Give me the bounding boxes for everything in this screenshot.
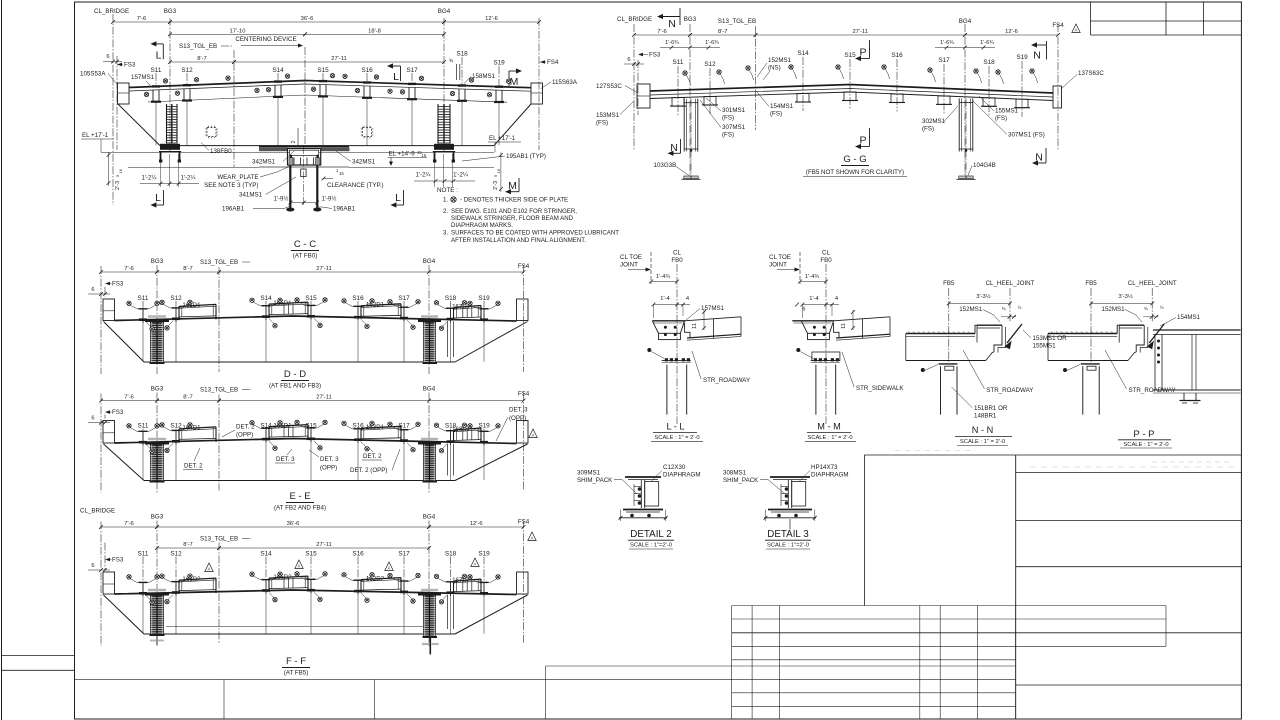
svg-text:FS3: FS3 [112, 281, 124, 288]
svg-text:307MS1: 307MS1 [722, 124, 746, 131]
svg-text:EL +14'-9: EL +14'-9 [389, 151, 416, 158]
svg-text:¾: ¾ [449, 59, 454, 65]
svg-text:S11: S11 [673, 59, 684, 66]
svg-text:8'-7: 8'-7 [183, 266, 193, 272]
svg-text:S15: S15 [305, 295, 317, 302]
svg-text:S13_TGL_EB: S13_TGL_EB [179, 43, 217, 50]
svg-text:16: 16 [496, 168, 501, 173]
svg-text:7'-6: 7'-6 [137, 16, 147, 22]
svg-text:A: A [532, 433, 535, 438]
svg-text:S13_TGL_EB: S13_TGL_EB [200, 387, 238, 394]
svg-text:1'-9½: 1'-9½ [274, 196, 289, 203]
svg-text:S17: S17 [938, 57, 950, 64]
svg-text:11: 11 [841, 323, 847, 329]
svg-text:S14: S14 [272, 67, 284, 74]
svg-text:1'-4: 1'-4 [660, 296, 670, 302]
svg-text:BG4: BG4 [423, 386, 436, 393]
svg-text:BG3: BG3 [151, 514, 164, 521]
svg-text:7'-6: 7'-6 [124, 266, 134, 272]
svg-text:309MS1: 309MS1 [577, 470, 601, 477]
svg-text:BG3: BG3 [684, 16, 697, 23]
svg-text:L: L [156, 50, 162, 62]
svg-text:S18: S18 [456, 51, 468, 58]
svg-text:BG4: BG4 [423, 258, 436, 265]
svg-text:S19: S19 [478, 295, 490, 302]
svg-text:BG4: BG4 [438, 8, 451, 15]
svg-text:FS3: FS3 [649, 52, 661, 59]
svg-text:1'-2¼: 1'-2¼ [453, 173, 469, 179]
svg-text:27'-11: 27'-11 [316, 266, 332, 272]
svg-text:7'-6: 7'-6 [124, 521, 134, 527]
svg-text:2: 2 [291, 140, 297, 143]
svg-text:DETAIL 3: DETAIL 3 [767, 529, 809, 540]
svg-text:FS3: FS3 [112, 409, 124, 416]
svg-text:(FS): (FS) [995, 115, 1007, 122]
svg-text:342MS1: 342MS1 [252, 159, 276, 166]
svg-text:158MS1: 158MS1 [472, 73, 496, 80]
DETAIL 3 sketch [770, 476, 810, 478]
title block big box [863, 455, 865, 606]
svg-text:3'-3½: 3'-3½ [1118, 293, 1132, 300]
svg-text:S12: S12 [170, 551, 182, 558]
DETAIL 2 sketch [625, 476, 661, 478]
svg-text:(AT FB2 AND FB4): (AT FB2 AND FB4) [274, 505, 326, 512]
svg-text:12'-6: 12'-6 [485, 16, 498, 22]
svg-text:S11: S11 [151, 67, 162, 74]
svg-text:CL_BRIDGE: CL_BRIDGE [80, 508, 115, 515]
svg-text:196AB1: 196AB1 [222, 206, 245, 213]
C-C deck and body [129, 81, 531, 88]
svg-text:FS4: FS4 [518, 263, 530, 270]
svg-text:S16: S16 [352, 295, 364, 302]
svg-text:137S63C: 137S63C [1078, 70, 1104, 77]
svg-text:CL_BRIDGE: CL_BRIDGE [94, 8, 129, 15]
svg-text:307MS1 (FS): 307MS1 (FS) [1008, 132, 1045, 139]
svg-text:2'-3: 2'-3 [115, 181, 121, 190]
svg-text:8'-7: 8'-7 [183, 542, 193, 548]
svg-text:FB5: FB5 [1085, 280, 1097, 287]
header table top right [1090, 2, 1092, 35]
svg-text:11: 11 [692, 323, 698, 329]
svg-text:L: L [395, 192, 401, 204]
svg-text:A: A [474, 562, 477, 567]
svg-text:¾: ¾ [1144, 306, 1148, 311]
svg-text:CL_HEEL_JOINT: CL_HEEL_JOINT [1128, 280, 1177, 287]
svg-text:L: L [155, 192, 161, 204]
svg-text:FS3: FS3 [124, 62, 136, 69]
svg-text:CL_BRIDGE: CL_BRIDGE [617, 16, 652, 23]
svg-text:(OPP): (OPP) [320, 465, 337, 472]
G-G grid lines [633, 24, 635, 150]
svg-text:S16: S16 [361, 67, 373, 74]
svg-text:(FS): (FS) [722, 115, 734, 122]
svg-text:FS4: FS4 [518, 391, 530, 398]
svg-text:S16: S16 [891, 52, 903, 59]
svg-text:STR_ROADWAY: STR_ROADWAY [703, 377, 750, 384]
svg-text:6: 6 [91, 563, 94, 569]
svg-text:N: N [670, 142, 678, 154]
svg-text:BG3: BG3 [151, 258, 164, 265]
svg-text:196AB1: 196AB1 [333, 206, 356, 213]
section F-F title [205, 563, 213, 572]
svg-text:S18: S18 [983, 59, 995, 66]
svg-text:(FB5 NOT SHOWN FOR CLARITY): (FB5 NOT SHOWN FOR CLARITY) [806, 169, 904, 176]
svg-text:M: M [508, 180, 517, 192]
svg-text:FS4: FS4 [518, 519, 530, 526]
svg-text:1'-2¼: 1'-2¼ [181, 176, 197, 182]
svg-text:155MS1: 155MS1 [995, 108, 1019, 115]
svg-text:CL TOE: CL TOE [620, 254, 642, 261]
left binding tab [2, 655, 75, 657]
svg-text:6: 6 [91, 416, 94, 422]
section E-E grid lines [100, 394, 102, 493]
svg-text:SEE DWG. E101 AND E102 FOR STR: SEE DWG. E101 AND E102 FOR STRINGER, [451, 208, 577, 215]
svg-text:DET. 3: DET. 3 [509, 407, 528, 414]
svg-text:3'-3½: 3'-3½ [976, 293, 990, 300]
svg-text:17'-10: 17'-10 [230, 28, 246, 34]
svg-text:SURFACES TO BE COATED WITH APP: SURFACES TO BE COATED WITH APPROVED LUBR… [451, 230, 619, 237]
section F-F grid lines [100, 522, 102, 647]
svg-text:154MS1: 154MS1 [770, 103, 794, 110]
svg-text:JOINT: JOINT [620, 262, 638, 269]
svg-text:S13_TGL_EB: S13_TGL_EB [718, 18, 756, 25]
svg-text:CL TOE: CL TOE [769, 254, 791, 261]
svg-text:7'-6: 7'-6 [124, 395, 134, 401]
G-G deck band and stringers [650, 85, 1053, 94]
C-C grid lines [112, 14, 114, 205]
svg-text:148BR1: 148BR1 [974, 413, 997, 420]
svg-text:7'-6: 7'-6 [657, 29, 667, 35]
svg-text:E - E: E - E [289, 491, 310, 502]
svg-text:1'-2¼: 1'-2¼ [142, 176, 158, 182]
paper left edge [1, 0, 3, 720]
svg-text:2'-3: 2'-3 [493, 181, 499, 190]
svg-text:SCALE : 1"=2'-0: SCALE : 1"=2'-0 [767, 543, 809, 549]
C-C weep hole symbols [207, 128, 216, 137]
svg-text:1'-4: 1'-4 [809, 296, 819, 302]
svg-text:(AT FB5): (AT FB5) [284, 670, 309, 677]
svg-text:S11: S11 [138, 295, 149, 302]
svg-text:163D1: 163D1 [366, 424, 385, 431]
svg-text:301MS1: 301MS1 [722, 107, 746, 114]
svg-text:DIAPHRAGM: DIAPHRAGM [663, 472, 700, 479]
svg-text:SCALE : 1" = 2'-0: SCALE : 1" = 2'-0 [654, 435, 699, 441]
svg-text:(FS): (FS) [722, 132, 734, 139]
section D-D body [115, 316, 517, 321]
svg-text:16: 16 [118, 168, 123, 173]
svg-text:162D2: 162D2 [366, 575, 385, 582]
svg-text:S18: S18 [445, 295, 457, 302]
svg-text:FS3: FS3 [112, 557, 124, 564]
svg-text:A: A [531, 536, 534, 541]
svg-text:3.: 3. [443, 230, 448, 237]
svg-text:FB0: FB0 [820, 257, 832, 264]
svg-text:195AB1 (TYP): 195AB1 (TYP) [506, 153, 546, 160]
svg-text:(FS): (FS) [596, 120, 608, 127]
svg-text:P - P: P - P [1133, 429, 1154, 440]
svg-text:1'-6¾: 1'-6¾ [980, 40, 994, 46]
svg-text:DET. 2 (OPP): DET. 2 (OPP) [350, 467, 387, 474]
svg-text:DET. 3: DET. 3 [276, 456, 295, 463]
svg-text:138FB0: 138FB0 [210, 148, 232, 155]
svg-text:S17: S17 [398, 551, 410, 558]
svg-text:CLEARANCE (TYP.): CLEARANCE (TYP.) [327, 182, 384, 189]
svg-text:¾: ¾ [1002, 306, 1006, 311]
svg-text:FB0: FB0 [671, 257, 683, 264]
svg-text:STR_SIDEWALK: STR_SIDEWALK [856, 385, 904, 392]
svg-text:S17: S17 [406, 67, 418, 74]
svg-text:27'-11: 27'-11 [316, 542, 332, 548]
svg-text:(OPP): (OPP) [509, 415, 526, 422]
svg-text:M - M: M - M [817, 422, 840, 432]
svg-text:153MS1: 153MS1 [596, 112, 620, 119]
svg-text:C12X30: C12X30 [663, 464, 686, 471]
C-C section cut markers [150, 41, 156, 46]
svg-text:341MS1: 341MS1 [239, 192, 263, 199]
svg-text:- DENOTES THICKER SIDE OF PLAT: - DENOTES THICKER SIDE OF PLATE [460, 197, 568, 204]
svg-text:N: N [1033, 50, 1041, 62]
C-C centering device assembly [259, 145, 349, 147]
svg-text:S14: S14 [260, 295, 272, 302]
svg-text:1'-9½: 1'-9½ [322, 196, 337, 203]
svg-text:FB5: FB5 [943, 280, 955, 287]
svg-text:8'-7: 8'-7 [718, 29, 728, 35]
svg-text:EL +17'-1: EL +17'-1 [82, 132, 109, 139]
svg-text:DET. 2: DET. 2 [184, 463, 203, 470]
svg-text:S16: S16 [352, 551, 364, 558]
svg-text:SCALE : 1" = 2'-0: SCALE : 1" = 2'-0 [807, 435, 852, 441]
svg-text:1'-6¾: 1'-6¾ [705, 40, 719, 46]
section E-E body [115, 439, 517, 444]
svg-text:P: P [859, 135, 866, 147]
svg-text:A: A [208, 567, 211, 572]
G-G section cut markers [657, 14, 663, 19]
svg-text:A: A [388, 566, 391, 571]
svg-text:SIDEWALK STRINGER, FLOOR BEAM: SIDEWALK STRINGER, FLOOR BEAM AND [451, 215, 574, 222]
svg-text:N - N: N - N [972, 425, 993, 435]
svg-text:SHIM_PACK: SHIM_PACK [723, 477, 759, 484]
svg-text:S19: S19 [1016, 54, 1028, 61]
G-G columns at BG3 and BG4 [683, 99, 685, 152]
svg-text:DET. 3: DET. 3 [320, 456, 339, 463]
svg-text:G - G: G - G [843, 154, 866, 165]
svg-text:S14: S14 [260, 551, 272, 558]
svg-text:(OPP): (OPP) [236, 432, 253, 439]
svg-text:127S53C: 127S53C [596, 83, 622, 90]
svg-text:S18: S18 [445, 551, 457, 558]
svg-text:115S63A: 115S63A [552, 79, 578, 86]
svg-text:308MS1: 308MS1 [723, 470, 747, 477]
svg-text:SCALE : 1" = 2'-0: SCALE : 1" = 2'-0 [960, 439, 1005, 445]
svg-text:1'-2¼: 1'-2¼ [416, 173, 432, 179]
svg-text:(FS): (FS) [922, 126, 934, 133]
svg-text:12'-6: 12'-6 [470, 521, 483, 527]
svg-text:16: 16 [339, 171, 344, 176]
svg-text:N: N [1035, 152, 1043, 164]
svg-text:27'-11: 27'-11 [331, 56, 347, 62]
svg-text:8'-7: 8'-7 [197, 56, 207, 62]
svg-text:A: A [1075, 28, 1078, 33]
svg-text:36'-6: 36'-6 [301, 16, 314, 22]
svg-text:C - C: C - C [294, 239, 316, 250]
svg-text:S13_TGL_EB: S13_TGL_EB [200, 536, 238, 543]
svg-text:BG4: BG4 [959, 18, 972, 25]
svg-text:18'-8: 18'-8 [368, 28, 381, 34]
svg-text:BG4: BG4 [423, 514, 436, 521]
svg-text:SCALE : 1"=2'-0: SCALE : 1"=2'-0 [630, 543, 672, 549]
svg-text:S15: S15 [317, 67, 329, 74]
svg-text:S12: S12 [181, 67, 193, 74]
svg-text:2.: 2. [443, 208, 448, 215]
svg-text:103G3B: 103G3B [654, 162, 677, 169]
svg-text:1.: 1. [443, 197, 448, 204]
svg-text:BG3: BG3 [151, 386, 164, 393]
svg-text:A: A [298, 564, 301, 569]
svg-text:6: 6 [803, 307, 806, 313]
svg-text:6: 6 [627, 57, 630, 63]
section F-F body [115, 590, 517, 595]
svg-text:SHIM_PACK: SHIM_PACK [577, 477, 613, 484]
svg-text:DIAPHRAGM MARKS.: DIAPHRAGM MARKS. [451, 222, 513, 229]
svg-text:(NS): (NS) [768, 65, 781, 72]
svg-text:S17: S17 [398, 295, 410, 302]
svg-text:EL +17'-1: EL +17'-1 [489, 135, 516, 142]
svg-text:CL: CL [822, 250, 830, 257]
svg-text:S12: S12 [170, 295, 182, 302]
svg-text:FS4: FS4 [547, 59, 559, 66]
svg-text:S12: S12 [704, 61, 716, 68]
svg-text:151BR1 OR: 151BR1 OR [974, 405, 1008, 412]
svg-text:(AT FB0): (AT FB0) [293, 253, 318, 260]
svg-text:1'-4¾: 1'-4¾ [656, 274, 670, 280]
title block greeked text [1030, 466, 1235, 468]
svg-text:S15: S15 [305, 551, 317, 558]
svg-text:DET. 2: DET. 2 [236, 424, 255, 431]
svg-text:FS4: FS4 [1052, 22, 1064, 29]
svg-text:STR_ROADWAY: STR_ROADWAY [986, 387, 1033, 394]
svg-text:½: ½ [1160, 304, 1164, 310]
svg-text:S14: S14 [797, 50, 809, 57]
svg-text:HP14X73: HP14X73 [811, 464, 838, 471]
C-C pier bearings at BG3 BG4 [160, 144, 180, 150]
svg-text:27'-11: 27'-11 [316, 395, 332, 401]
svg-text:AFTER INSTALLATION AND FINAL A: AFTER INSTALLATION AND FINAL ALIGNMENT. [451, 237, 586, 244]
svg-text:152MS1: 152MS1 [1102, 306, 1126, 313]
title block right rows [1015, 455, 1017, 719]
svg-text:F - F: F - F [286, 656, 306, 667]
svg-text:154MS1: 154MS1 [1177, 314, 1201, 321]
svg-text:SCALE : 1" = 2'-0: SCALE : 1" = 2'-0 [1123, 442, 1168, 448]
svg-text:S15: S15 [844, 52, 856, 59]
title block bottom table [732, 605, 1166, 607]
svg-text:27'-11: 27'-11 [852, 29, 868, 35]
svg-text:D - D: D - D [284, 369, 306, 380]
svg-text:1'-6¾: 1'-6¾ [940, 40, 954, 46]
svg-text:CL: CL [673, 250, 681, 257]
svg-text:DET. 2: DET. 2 [363, 453, 382, 460]
svg-text:DIAPHRAGM: DIAPHRAGM [811, 472, 848, 479]
svg-text:S13_TGL_EB: S13_TGL_EB [200, 259, 238, 266]
svg-text:104G4B: 104G4B [973, 162, 996, 169]
svg-text:152MS1: 152MS1 [959, 306, 983, 313]
svg-text:NOTE :: NOTE : [437, 187, 458, 194]
svg-text:(FS): (FS) [770, 111, 782, 118]
svg-text:1'-6¾: 1'-6¾ [665, 40, 679, 46]
svg-text:CL_HEEL_JOINT: CL_HEEL_JOINT [986, 280, 1035, 287]
svg-text:302MS1: 302MS1 [922, 118, 946, 125]
svg-text:DETAIL 2: DETAIL 2 [630, 529, 671, 540]
svg-text:(AT FB1 AND FB3): (AT FB1 AND FB3) [269, 383, 321, 390]
svg-text:342MS1: 342MS1 [352, 159, 376, 166]
svg-text:105S53A: 105S53A [80, 71, 106, 78]
svg-text:S19: S19 [493, 60, 505, 67]
svg-text:S19: S19 [478, 551, 490, 558]
section D-D grid lines [100, 266, 102, 374]
svg-text:SEE NOTE 3 (TYP): SEE NOTE 3 (TYP) [204, 182, 258, 189]
svg-text:36'-6: 36'-6 [287, 521, 300, 527]
svg-text:S11: S11 [138, 423, 149, 430]
svg-text:6: 6 [91, 287, 94, 293]
svg-text:8'-7: 8'-7 [183, 395, 193, 401]
svg-text:½: ½ [1018, 304, 1022, 310]
svg-text:157MS1: 157MS1 [131, 74, 155, 81]
svg-text:1'-4¾: 1'-4¾ [805, 274, 819, 280]
svg-text:6: 6 [106, 54, 109, 60]
svg-text:P: P [859, 47, 866, 59]
svg-text:S11: S11 [138, 551, 149, 558]
svg-text:152MS1: 152MS1 [768, 57, 792, 64]
svg-text:L - L: L - L [666, 422, 684, 432]
svg-text:157MS1: 157MS1 [701, 305, 725, 312]
svg-text:12'-6: 12'-6 [1005, 29, 1018, 35]
svg-text:WEAR_PLATE: WEAR_PLATE [217, 174, 258, 181]
svg-text:JOINT: JOINT [769, 262, 787, 269]
svg-text:L: L [393, 71, 399, 83]
svg-text:CENTERING DEVICE: CENTERING DEVICE [235, 36, 296, 43]
svg-text:162D1: 162D1 [366, 302, 385, 309]
svg-text:155MS1: 155MS1 [1033, 343, 1057, 350]
svg-text:N: N [668, 18, 676, 30]
svg-text:BG3: BG3 [164, 8, 177, 15]
